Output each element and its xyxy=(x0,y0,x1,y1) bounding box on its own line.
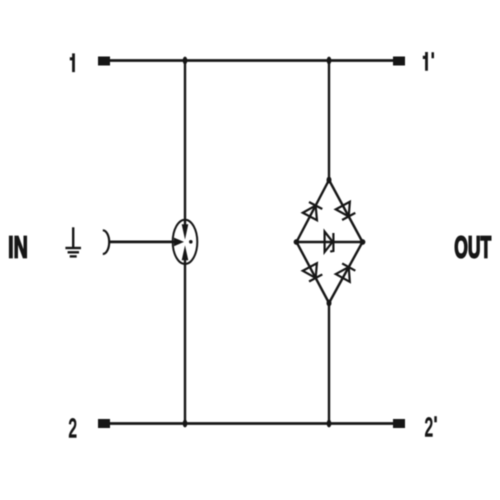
svg-text:2: 2 xyxy=(425,413,433,442)
diode D3 lower-left xyxy=(303,263,323,281)
wire vertical right branch lower xyxy=(328,302,330,424)
node diamond bottom xyxy=(327,300,332,307)
wire vertical left branch upper xyxy=(184,61,186,226)
diode D1 upper-left xyxy=(303,202,323,220)
svg-text:IN: IN xyxy=(8,229,28,265)
wire vertical right branch upper xyxy=(328,61,330,182)
wire vertical left branch lower xyxy=(184,260,186,424)
gas discharge tube F1 xyxy=(173,220,198,264)
junction bottom-right xyxy=(327,420,332,428)
junction top-left xyxy=(183,57,188,65)
zener diode D5 center xyxy=(325,232,334,252)
node diamond top xyxy=(327,177,332,184)
junction top-right xyxy=(327,57,332,65)
ground xyxy=(65,227,81,256)
diamond edge upper-left wire xyxy=(297,180,330,242)
diamond edge upper-right wire xyxy=(329,180,363,242)
wire middle of bridge xyxy=(297,241,363,244)
diode D4 lower-right xyxy=(336,263,356,282)
diamond edge lower-right wire xyxy=(329,242,363,303)
ground coupling arc xyxy=(103,230,109,254)
wire bottom (2 to 2') xyxy=(110,422,393,425)
node diamond right xyxy=(360,239,366,245)
node diamond left xyxy=(294,239,300,245)
label 2' xyxy=(425,413,437,442)
label 1' xyxy=(423,52,434,71)
arrow IN to arrester xyxy=(109,238,184,247)
diode D2 upper-right xyxy=(336,202,356,221)
wire top (1 to 1') xyxy=(110,59,393,62)
svg-text:OUT: OUT xyxy=(454,230,491,264)
svg-text:2: 2 xyxy=(68,414,76,443)
terminal 2 xyxy=(98,419,110,428)
label 1 xyxy=(70,53,75,72)
junction bottom-left xyxy=(183,420,188,428)
terminal 1' xyxy=(393,57,405,66)
terminal 1 xyxy=(98,57,110,66)
terminal 2' xyxy=(393,419,405,428)
diamond edge lower-left wire xyxy=(297,242,330,303)
